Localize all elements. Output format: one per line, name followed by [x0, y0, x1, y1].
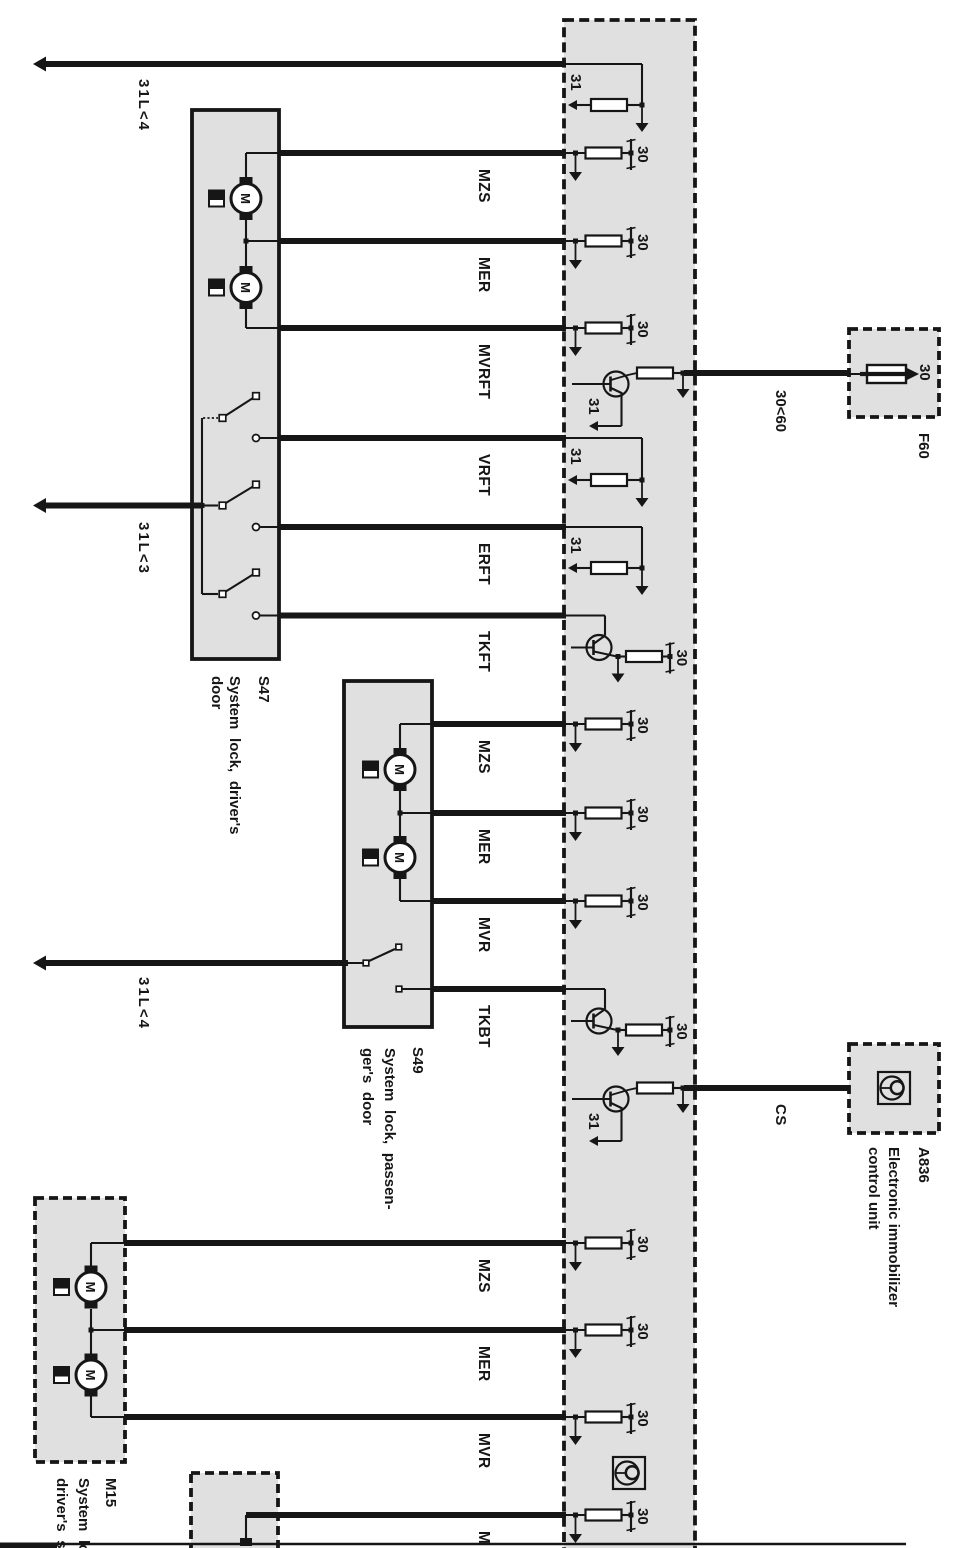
fuse resistor MZS M15 side: [586, 1238, 632, 1249]
svg-text:31: 31: [567, 537, 584, 554]
switch S49 throw contact to TKBT: [396, 986, 431, 992]
output junction of driver output 30<60: [681, 371, 686, 376]
pin label 30 (MZS S49 side): [634, 717, 651, 734]
switch 1 S47 (VRFT): [219, 393, 259, 422]
switch 2 S47 (ERFT): [219, 481, 259, 509]
emitter junction of TKBT driver: [616, 1028, 621, 1033]
signal label MER: [475, 257, 492, 293]
transistor CS output: [572, 1087, 637, 1112]
ground arrow below TKFT driver: [612, 657, 625, 683]
svg-text:driver's side: driver's side: [53, 1478, 70, 1548]
pin label 30 (MZS S47 side): [634, 146, 651, 163]
pin label 31 (CS output): [585, 1113, 602, 1130]
wire inside S47 from motor M to MZS terminal: [246, 153, 279, 177]
signal label MZS: [475, 740, 492, 774]
svg-text:M: M: [238, 193, 253, 204]
pin label 31 (VRFT): [567, 448, 584, 465]
svg-text:30: 30: [634, 321, 651, 338]
motor central locking motor 2 (S47): [231, 266, 261, 309]
terminal 30 bar MER M15 side: [627, 1316, 636, 1347]
signal label TKBT: [475, 1005, 492, 1048]
svg-text:30: 30: [634, 894, 651, 911]
ground arrow below output of CS output: [677, 1088, 690, 1113]
wire stub to 31 network ERFT: [565, 527, 642, 568]
terminal 30 bar MVR S49 side: [627, 887, 636, 918]
svg-text:control unit: control unit: [865, 1147, 882, 1230]
svg-text:VRFT: VRFT: [475, 454, 492, 496]
label S47 description: [208, 676, 243, 834]
ground arrow below node (ERFT): [636, 568, 649, 595]
fuse resistor after CS output: [637, 1083, 684, 1094]
svg-text:TKBT: TKBT: [475, 1005, 492, 1048]
wire ERFT from S47: [279, 524, 566, 530]
terminal 30 bar M M16 side: [627, 1501, 636, 1532]
svg-text:System lock, passen-: System lock, passen-: [381, 1048, 398, 1210]
terminal 30 bar MVR M15 side: [627, 1403, 636, 1434]
component box S47 System lock driver's door: [192, 110, 279, 659]
svg-text:30: 30: [634, 717, 651, 734]
pin label 31 (top feed): [567, 74, 584, 91]
wire MVRFT from S47: [279, 325, 566, 331]
svg-text:MZS: MZS: [475, 740, 492, 774]
svg-text:System lock, driver's: System lock, driver's: [226, 676, 243, 834]
ground arrow below TKBT driver: [612, 1030, 625, 1056]
transistor driver output 30<60: [572, 372, 637, 397]
wire M... from M16 partial: [246, 1512, 566, 1518]
label A836: [915, 1147, 932, 1183]
wire into transistor TKBT driver: [565, 989, 605, 1009]
svg-text:M15: M15: [102, 1478, 119, 1507]
component box M16 dashed partial at bottom: [191, 1473, 278, 1548]
pin label 31 (driver output 30<60): [585, 398, 602, 415]
wire 31L<3 feed: [44, 503, 203, 509]
wire VRFT from S47: [279, 435, 566, 441]
emitter junction of TKFT driver: [616, 654, 621, 659]
label A836 description: [865, 1147, 902, 1307]
svg-text:30: 30: [673, 650, 690, 667]
connector symbol motor 1 plug (M15): [53, 1278, 70, 1296]
switch 2 throw contact to ERFT: [253, 524, 280, 531]
wire 30<60 to F60: [684, 370, 850, 376]
pin label 30 (MVR M15 side): [634, 1410, 651, 1427]
component box S49 System lock passenger's door: [344, 681, 432, 1027]
wire 31L feed at top: [44, 61, 566, 67]
signal label ERFT: [475, 543, 492, 585]
control-unit icon A836 immobilizer: [878, 1072, 910, 1104]
motor central locking motor 2 (S49): [385, 836, 415, 879]
svg-text:door: door: [208, 676, 225, 709]
wire into transistor TKFT driver: [565, 616, 605, 636]
net label CS: [772, 1104, 789, 1126]
wire inside M16 partial box: [240, 1515, 252, 1546]
wire MER M15 side: [565, 1328, 586, 1333]
svg-text:F60: F60: [915, 433, 932, 459]
svg-text:31L<4: 31L<4: [135, 977, 152, 1030]
emitter lead of driver output 30<60 to terminal 31: [589, 392, 622, 431]
svg-text:ger's door: ger's door: [359, 1048, 376, 1125]
net label 30<60: [772, 390, 789, 432]
fuse F60 element: [850, 365, 919, 383]
svg-text:31L<4: 31L<4: [135, 79, 152, 132]
fuse resistor MVRFT S47 side: [586, 323, 632, 334]
svg-text:31: 31: [585, 398, 602, 415]
label M15: [102, 1478, 119, 1507]
pin label 30 (MVRFT S47 side): [634, 321, 651, 338]
fuse resistor MER M15 side: [586, 1325, 632, 1336]
svg-text:30: 30: [634, 1410, 651, 1427]
svg-text:TKFT: TKFT: [475, 631, 492, 672]
wire TKBT from S49: [431, 986, 566, 992]
pin label 30 (F60): [916, 364, 933, 381]
terminal 30 bar after TKBT driver: [666, 1016, 675, 1047]
arrow to terminal 31 (ERFT): [568, 563, 591, 573]
svg-text:30<60: 30<60: [772, 390, 789, 432]
ground arrow below MZS junction: [569, 1243, 582, 1271]
emitter lead of CS output to terminal 31: [589, 1107, 622, 1146]
fuse resistor MVR M15 side: [586, 1412, 632, 1423]
svg-text:30: 30: [634, 1323, 651, 1340]
transistor TKBT driver: [571, 1009, 617, 1034]
svg-text:M: M: [392, 764, 407, 775]
label S49: [409, 1047, 426, 1074]
page border bottom: [0, 1543, 906, 1548]
svg-text:30: 30: [673, 1023, 690, 1040]
wire MVR S49 side: [565, 899, 586, 904]
signal label MZS: [475, 1259, 492, 1293]
svg-text:Electronic immobilizer: Electronic immobilizer: [885, 1147, 902, 1307]
terminal 30 bar MER S47 side: [627, 227, 636, 258]
junction of 31L<3 feed on bus: [200, 503, 219, 508]
ground arrow below MER junction: [569, 813, 582, 841]
wire MER S49 side: [565, 811, 586, 816]
switch 3 S47 (TKFT): [219, 569, 259, 597]
terminal 30 bar after TKFT driver: [666, 643, 675, 674]
svg-text:S49: S49: [409, 1047, 426, 1074]
arrow terminal 31L top-left: [33, 57, 46, 72]
arrow terminal 31L<4 lower: [33, 956, 46, 971]
ground arrow below M junction: [569, 1515, 582, 1543]
terminal 30 bar MZS S49 side: [627, 710, 636, 741]
wire inside S49 from motor to MZS terminal: [400, 724, 431, 748]
pin label 30 (MVR S49 side): [634, 894, 651, 911]
terminal 30 bar MZS S47 side: [627, 139, 636, 170]
ground arrow below MVRFT junction: [569, 328, 582, 356]
ground arrow below MER junction: [569, 241, 582, 269]
svg-text:30: 30: [634, 1508, 651, 1525]
ground arrow below output of driver output 30<60: [677, 373, 690, 398]
fuse resistor MVR S49 side: [586, 896, 632, 907]
ground arrow below MER junction: [569, 1330, 582, 1358]
label M15 description: [53, 1478, 92, 1548]
fuse resistor after TKBT driver: [618, 1025, 670, 1036]
ground arrow below MZS junction: [569, 153, 582, 181]
ground arrow below MVR junction: [569, 1417, 582, 1445]
junction node between M15 motors: [89, 1309, 125, 1354]
svg-text:M: M: [392, 852, 407, 863]
resistor in 31 leg (top feed): [591, 99, 642, 111]
svg-text:30: 30: [634, 146, 651, 163]
wire inside S47 from motor 2 to MVRFT terminal: [246, 309, 279, 328]
svg-text:31: 31: [567, 448, 584, 465]
fuse resistor M M16 side: [586, 1510, 632, 1521]
output junction of CS output: [681, 1086, 686, 1091]
svg-text:M: M: [475, 1531, 492, 1544]
signal label TKFT: [475, 631, 492, 672]
arrow terminal 31L<3: [33, 498, 46, 513]
resistor in 31 leg (ERFT): [591, 562, 642, 574]
svg-text:ERFT: ERFT: [475, 543, 492, 585]
component box M15 dashed: [35, 1198, 125, 1462]
svg-text:S47: S47: [255, 676, 272, 703]
connector symbol motor 2 plug (S49): [362, 849, 379, 867]
wire M M16 side: [565, 1513, 586, 1518]
node junction (VRFT): [640, 478, 645, 483]
arrow to terminal 31 (VRFT): [568, 475, 591, 485]
svg-text:30: 30: [634, 1236, 651, 1253]
svg-text:30: 30: [634, 806, 651, 823]
wire MVR from M15: [124, 1414, 566, 1420]
node junction (ERFT): [640, 566, 645, 571]
motor central locking motor 1 (S49): [385, 748, 415, 791]
pin label 30 (after TKBT driver): [673, 1023, 690, 1040]
svg-text:MER: MER: [475, 829, 492, 865]
terminal 30 bar MER S49 side: [627, 799, 636, 830]
ground arrow below MVR junction: [569, 901, 582, 929]
transistor TKFT driver: [571, 635, 617, 660]
label F60: [915, 433, 932, 459]
wire inside M15 from motor to MZS terminal: [91, 1243, 124, 1266]
ground arrow below node (top feed): [636, 105, 649, 132]
signal label MVR: [475, 1433, 492, 1469]
pin label 30 (MER M15 side): [634, 1323, 651, 1340]
switch bank bus inside S47: [201, 418, 203, 594]
central control unit dashed box (door-lock control module): [564, 20, 695, 1548]
mechanical link dotted (S47 switch 1): [203, 417, 218, 419]
pin label 30 (after TKFT driver): [673, 650, 690, 667]
svg-text:MZS: MZS: [475, 169, 492, 203]
wire MVRFT S47 side: [565, 326, 586, 331]
svg-text:31: 31: [585, 1113, 602, 1130]
label S47: [255, 676, 272, 703]
signal label MER: [475, 829, 492, 865]
wire 31L<4 feed to S49: [44, 960, 348, 966]
wire inside M15 from motor 2 to MVR terminal: [91, 1396, 124, 1417]
pin label 30 (MER S49 side): [634, 806, 651, 823]
label S49 description: [359, 1048, 398, 1210]
svg-text:M: M: [83, 1370, 98, 1381]
signal label MZS: [475, 169, 492, 203]
svg-text:MER: MER: [475, 257, 492, 293]
net label 31L<4 lower: [135, 977, 152, 1030]
wire stub to 31 network top feed: [565, 64, 642, 105]
switch 3 throw contact to TKFT: [253, 612, 280, 619]
svg-text:MER: MER: [475, 1346, 492, 1382]
svg-text:31L<3: 31L<3: [135, 522, 152, 575]
pin label 30 (MZS M15 side): [634, 1236, 651, 1253]
fuse resistor after TKFT driver: [618, 651, 670, 662]
pin label 30 (MER S47 side): [634, 234, 651, 251]
motor lock motor 1 (M15): [76, 1266, 106, 1309]
wire TKFT from S47: [279, 613, 566, 619]
svg-text:CS: CS: [772, 1104, 789, 1126]
signal label MVR: [475, 917, 492, 953]
motor central locking motor 1 (S47): [231, 177, 261, 220]
connector symbol motor 1 plug (S49): [362, 761, 379, 779]
wire CS to A836: [684, 1085, 850, 1091]
switch S49 (TKBT): [344, 944, 402, 966]
fuse resistor MZS S47 side: [586, 148, 632, 159]
junction node between S47 motors: [244, 220, 280, 266]
signal label M: [475, 1531, 492, 1544]
svg-text:System lock,: System lock,: [75, 1478, 92, 1548]
svg-text:MVR: MVR: [475, 1433, 492, 1469]
wire MVR M15 side: [565, 1415, 586, 1420]
svg-text:MZS: MZS: [475, 1259, 492, 1293]
wire stub to 31 network VRFT: [565, 438, 642, 480]
fuse resistor MER S47 side: [586, 236, 632, 247]
wire MZS M15 side: [565, 1241, 586, 1246]
fuse resistor MZS S49 side: [586, 719, 632, 730]
svg-text:M: M: [238, 282, 253, 293]
fuse resistor after driver output 30<60: [637, 368, 684, 379]
net label 31L<3: [135, 522, 152, 575]
connector symbol motor 2 plug (S47): [208, 279, 225, 297]
signal label MER: [475, 1346, 492, 1382]
wire MZS from S47: [279, 150, 566, 156]
bus corner to switch 3 pivot: [202, 593, 218, 595]
node junction (top feed): [640, 103, 645, 108]
wire MZS S49 side: [565, 722, 586, 727]
wire MZS from S49: [431, 721, 566, 727]
junction node between S49 motors: [398, 791, 432, 836]
motor lock motor 2 (M15): [76, 1354, 106, 1397]
svg-text:30: 30: [916, 364, 933, 381]
arrow to terminal 31 (top feed): [568, 100, 591, 110]
wire MER S47 side: [565, 239, 586, 244]
signal label VRFT: [475, 454, 492, 496]
svg-text:M: M: [83, 1282, 98, 1293]
wire MER from S49: [431, 810, 566, 816]
resistor in 31 leg (VRFT): [591, 474, 642, 486]
wire MER from S47: [279, 238, 566, 244]
ground arrow below MZS junction: [569, 724, 582, 752]
net label 31L<4 top: [135, 79, 152, 132]
svg-text:30: 30: [634, 234, 651, 251]
wire MZS S47 side: [565, 151, 586, 156]
fuse box F60 dashed: [849, 329, 939, 417]
ground arrow below node (VRFT): [636, 480, 649, 507]
control-unit icon control unit internal: [613, 1457, 645, 1489]
pin label 30 (M M16 side): [634, 1508, 651, 1525]
signal label MVRFT: [475, 344, 492, 400]
switch 1 throw contact to VRFT: [253, 435, 280, 442]
pin label 31 (ERFT): [567, 537, 584, 554]
svg-text:A836: A836: [915, 1147, 932, 1183]
wire inside S49 from motor 2 to MVR terminal: [400, 879, 431, 901]
terminal 30 bar MVRFT S47 side: [627, 314, 636, 345]
component box A836 dashed: [849, 1044, 939, 1133]
terminal 30 bar MZS M15 side: [627, 1229, 636, 1260]
wire MVR from S49: [431, 898, 566, 904]
wire MER from M15: [124, 1327, 566, 1333]
svg-text:31: 31: [567, 74, 584, 91]
wire MZS from M15: [124, 1240, 566, 1246]
connector symbol motor 1 plug (S47): [208, 190, 225, 208]
svg-text:MVRFT: MVRFT: [475, 344, 492, 400]
connector symbol motor 2 plug (M15): [53, 1366, 70, 1384]
fuse resistor MER S49 side: [586, 808, 632, 819]
svg-text:MVR: MVR: [475, 917, 492, 953]
